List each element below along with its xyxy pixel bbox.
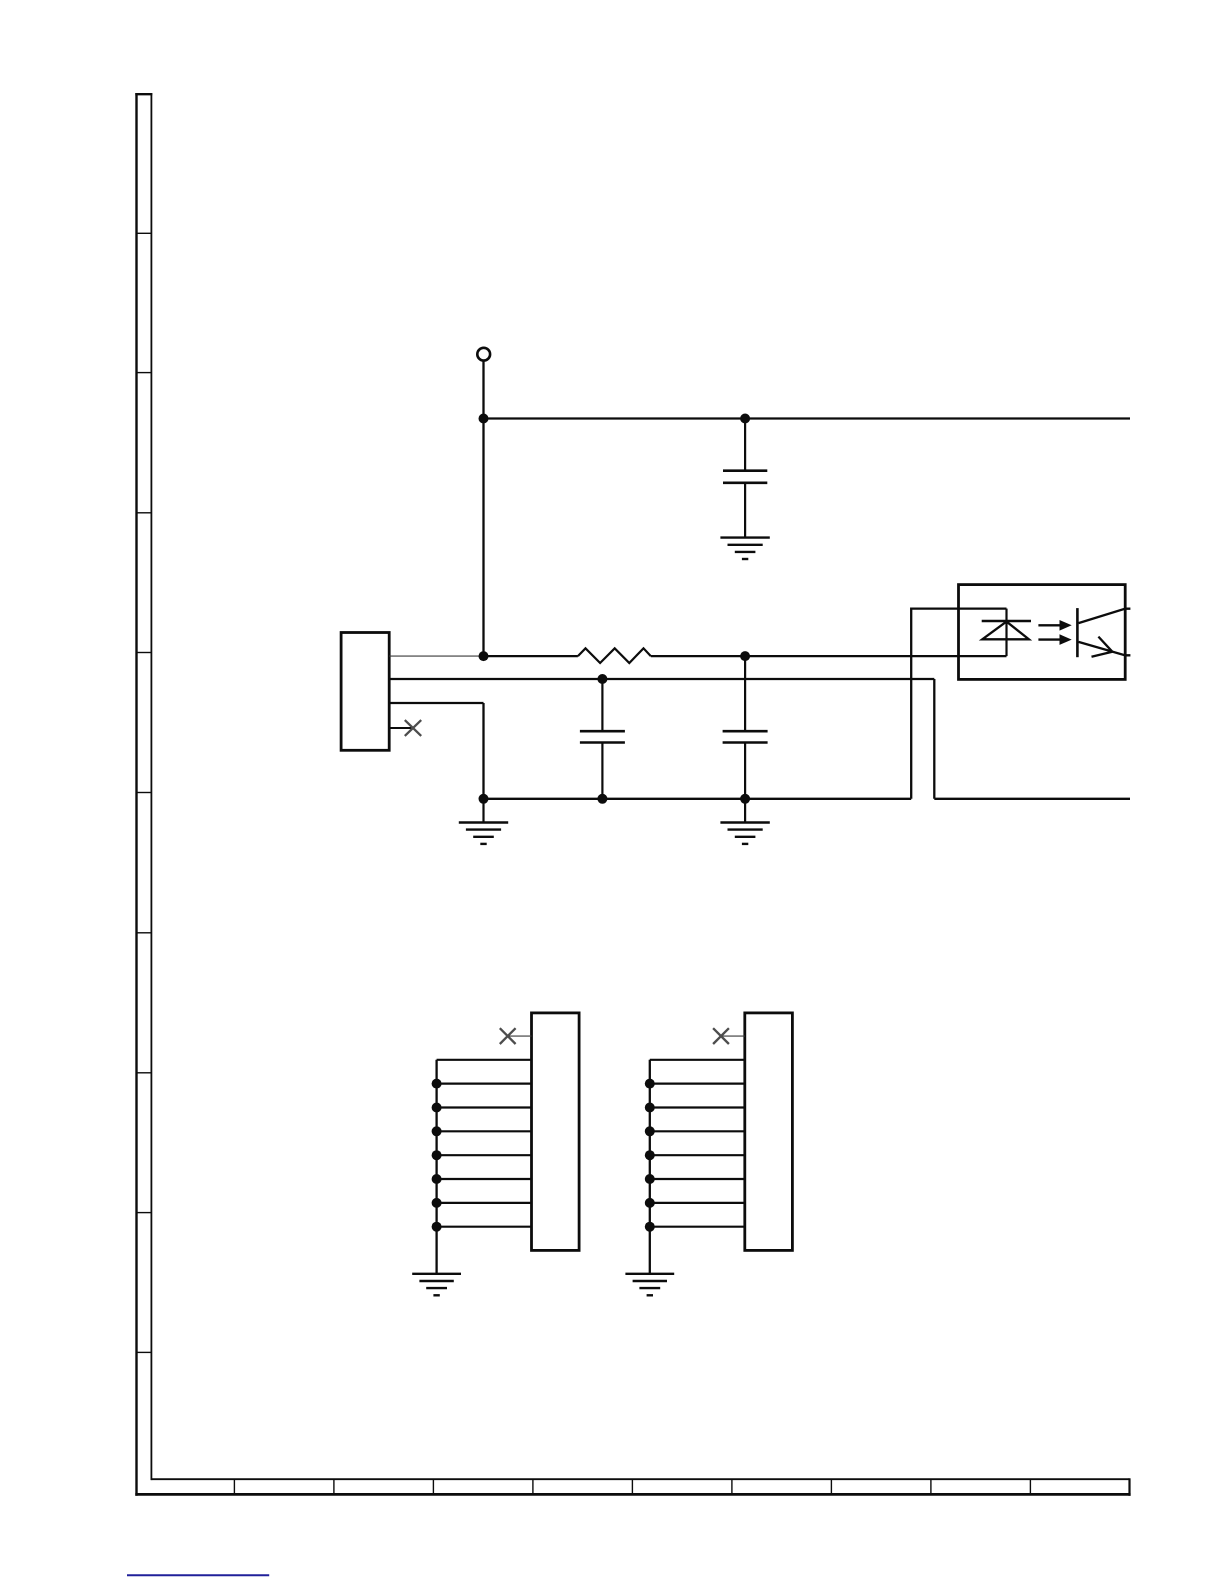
no-connect X on J2 pin1: [500, 1028, 516, 1044]
node: pin2 at C2: [597, 674, 607, 684]
LED D1 triangle: [982, 622, 1029, 640]
capacitor C2 top lead wire: [601, 679, 603, 731]
ground G4: [412, 1274, 461, 1296]
sheet border left outer line: [135, 93, 137, 1496]
wire: J1 pin4 stub: [389, 727, 412, 729]
capacitor C3: [723, 731, 768, 742]
connector J2: [532, 1013, 580, 1251]
capacitor C3 top lead wire: [744, 656, 746, 731]
phototransistor emitter arrow: [1092, 637, 1113, 657]
node: rail at C1: [740, 414, 750, 424]
wire: J2 ground bus: [435, 1060, 437, 1274]
LED light arrow 2: [1038, 634, 1071, 645]
power terminal circle: [477, 348, 490, 361]
wire: J1 pin3: [389, 702, 483, 704]
wire: terminal down to pin1 node: [482, 361, 484, 656]
wire: ground rail riser: [911, 609, 1006, 799]
phototransistor collector: [1079, 609, 1131, 623]
wire: LED cathode drop: [1005, 609, 1007, 657]
resistor R1: [578, 648, 651, 663]
wire: J3 ground bus: [649, 1060, 651, 1274]
wire: pin1 node to resistor: [484, 655, 578, 657]
wire: J1 pin1 stub: [389, 655, 483, 657]
sheet border bottom inner line: [151, 1478, 1129, 1480]
node: pin1 at terminal drop: [479, 651, 489, 661]
J2 pin wires: [437, 1060, 532, 1227]
ground rail wire: [484, 798, 912, 800]
wire: J3 pin1 stub: [721, 1035, 745, 1037]
sheet border top cap: [135, 93, 152, 95]
ground G2: [459, 799, 508, 844]
wire: resistor to LED anode: [651, 655, 1007, 657]
nodes: J3 bus junctions: [645, 1079, 655, 1089]
J3 pin wires: [650, 1060, 745, 1227]
ground G5: [625, 1274, 674, 1296]
wire: pin2 drop: [933, 679, 935, 799]
node: ground rail at C3: [740, 794, 750, 804]
ground G1: [720, 538, 769, 559]
nodes: J2 bus junctions: [432, 1079, 442, 1089]
phototransistor emitter: [1079, 642, 1131, 655]
LED D1 cathode bar: [982, 620, 1031, 623]
wire: J2 pin1 stub: [508, 1035, 532, 1037]
node: pin1 at C3: [740, 651, 750, 661]
ground G3: [720, 799, 769, 844]
phototransistor Q1 base bar: [1076, 608, 1079, 657]
connector J1: [341, 633, 389, 751]
capacitor C3 bottom lead wire: [744, 743, 746, 799]
sheet border left zone ticks: [137, 233, 152, 1352]
sheet border bottom right cap: [1128, 1478, 1130, 1496]
capacitor C1 top lead wire: [744, 419, 746, 471]
node: ground rail at pin3 drop: [479, 794, 489, 804]
wire: J1 pin2: [389, 678, 934, 680]
no-connect X on J3 pin1: [713, 1028, 729, 1044]
sheet border bottom outer line: [135, 1493, 1130, 1496]
no-connect X on J1 pin4: [405, 720, 421, 736]
capacitor C1 bottom lead wire: [744, 483, 746, 538]
node: ground rail at C2: [597, 794, 607, 804]
junction dots: [432, 414, 750, 1232]
sheet border left inner line: [150, 93, 152, 1480]
top power rail wire: [484, 417, 1131, 419]
wire: pin2 bottom run: [934, 798, 1130, 800]
sheet border bottom zone ticks: [234, 1479, 1030, 1494]
wire: pin3 drop: [482, 703, 484, 799]
LED light arrow 1: [1038, 620, 1071, 631]
capacitor C1: [723, 471, 767, 483]
capacitor C2 bottom lead wire: [601, 743, 603, 799]
connector J3: [745, 1013, 793, 1251]
node: rail at terminal drop: [479, 414, 489, 424]
optocoupler U1 box: [959, 585, 1126, 680]
capacitor C2: [580, 731, 625, 742]
hyperlink underline: [127, 1574, 269, 1576]
